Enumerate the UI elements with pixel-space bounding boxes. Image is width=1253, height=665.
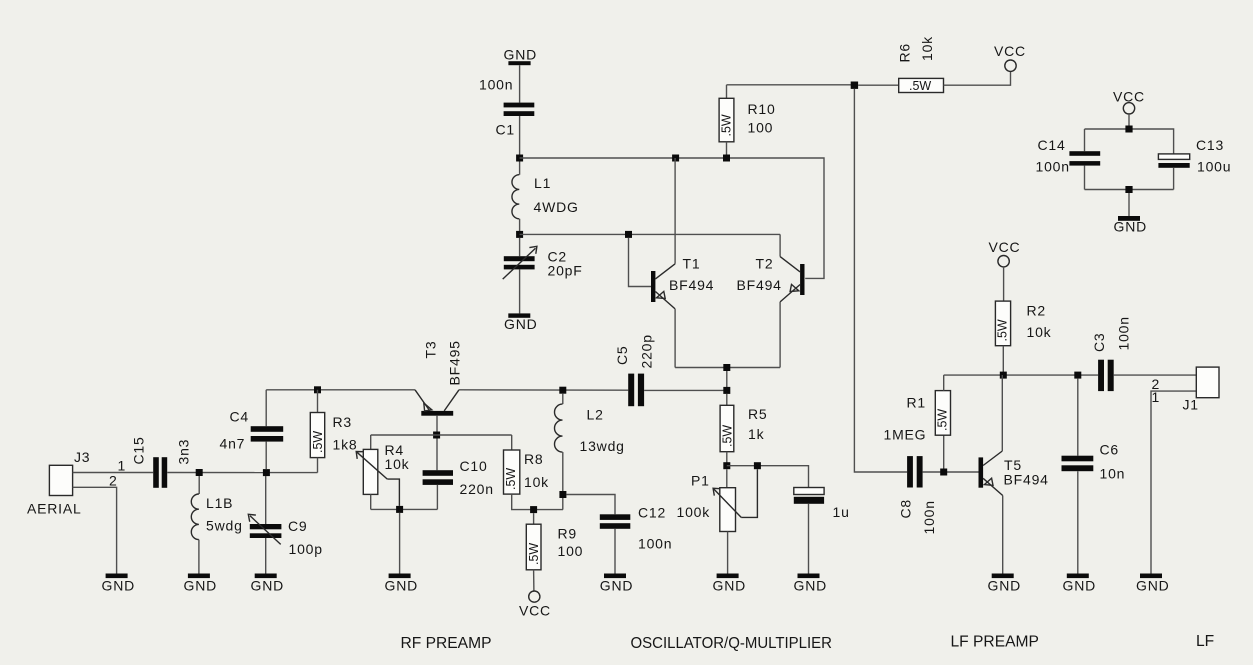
ground (T5) bbox=[988, 574, 1022, 594]
wire emitters U bbox=[675, 367, 780, 369]
wire C8 to T5 base bbox=[923, 471, 979, 473]
capacitor C3 bbox=[1091, 316, 1132, 391]
svg-text:100k: 100k bbox=[677, 504, 711, 520]
svg-text:GND: GND bbox=[713, 578, 747, 594]
ground (P1) bbox=[713, 574, 747, 594]
svg-text:1: 1 bbox=[118, 458, 127, 474]
node L1 bottom junction bbox=[516, 231, 523, 238]
svg-text:1k8: 1k8 bbox=[333, 437, 358, 453]
ground (C12) bbox=[600, 574, 634, 594]
ground (J1) bbox=[1136, 574, 1170, 594]
svg-text:P1: P1 bbox=[691, 473, 710, 489]
svg-text:4WDG: 4WDG bbox=[534, 199, 579, 215]
node R5 top junction bbox=[723, 387, 730, 394]
svg-text:.5W: .5W bbox=[504, 468, 518, 490]
svg-text:C14: C14 bbox=[1038, 137, 1066, 153]
wire rail y=158 bbox=[520, 158, 824, 278]
svg-text:VCC: VCC bbox=[519, 603, 551, 619]
svg-text:GND: GND bbox=[504, 47, 538, 63]
capacitor C2 (variable) bbox=[503, 238, 583, 314]
node L2 bottom junction bbox=[559, 491, 566, 498]
svg-text:J1: J1 bbox=[1183, 397, 1199, 413]
capacitor C5 bbox=[614, 334, 655, 406]
svg-text:T2: T2 bbox=[756, 256, 774, 272]
wire R10 top to R6 node bbox=[727, 84, 855, 86]
svg-text:L2: L2 bbox=[587, 407, 604, 423]
svg-text:3n3: 3n3 bbox=[176, 439, 192, 465]
capacitor C6 bbox=[1062, 379, 1126, 574]
svg-text:.5W: .5W bbox=[936, 409, 950, 431]
wire R5 bottom to 1u cap bbox=[727, 466, 809, 488]
svg-text:10k: 10k bbox=[524, 474, 549, 490]
svg-text:GND: GND bbox=[794, 578, 828, 594]
resistor R2 bbox=[995, 267, 1051, 375]
ground (J3 pin2) bbox=[102, 574, 136, 594]
svg-text:.5W: .5W bbox=[720, 114, 734, 136]
wire C5 right to R5 top node bbox=[644, 389, 727, 391]
capacitor C1 bbox=[479, 65, 534, 158]
svg-text:.5W: .5W bbox=[311, 431, 325, 453]
wire junction to ground bbox=[399, 513, 401, 574]
wire input node to C4/R3 bottom bbox=[266, 472, 317, 474]
inductor L1B bbox=[191, 476, 242, 574]
svg-text:R5: R5 bbox=[748, 406, 768, 422]
ground (L1B) bbox=[184, 574, 218, 594]
svg-text:VCC: VCC bbox=[994, 43, 1026, 59]
wire C15 to input node bbox=[167, 472, 266, 474]
svg-text:.5W: .5W bbox=[721, 425, 735, 447]
node R6 junction bbox=[851, 82, 858, 89]
svg-text:100n: 100n bbox=[1116, 316, 1132, 350]
svg-text:C12: C12 bbox=[638, 505, 666, 521]
capacitor C12 bbox=[600, 505, 673, 574]
svg-text:R10: R10 bbox=[748, 101, 776, 117]
svg-text:13wdg: 13wdg bbox=[580, 438, 625, 454]
svg-text:GND: GND bbox=[385, 578, 419, 594]
wire VCC rail vertical to LF preamp bbox=[854, 89, 907, 472]
supply VCC (C14/C13) bbox=[1113, 89, 1145, 130]
svg-text:C15: C15 bbox=[131, 436, 147, 464]
svg-text:.5W: .5W bbox=[996, 319, 1010, 341]
svg-text:C9: C9 bbox=[288, 518, 308, 534]
inductor L2 bbox=[555, 394, 625, 491]
svg-text:LF: LF bbox=[1196, 633, 1214, 650]
svg-text:GND: GND bbox=[988, 578, 1022, 594]
capacitor C9 (variable) bbox=[248, 476, 323, 574]
wire L2 bottom to C12 bbox=[566, 495, 615, 515]
resistor R9 bbox=[526, 513, 583, 591]
svg-text:220n: 220n bbox=[460, 481, 494, 497]
svg-text:BF494: BF494 bbox=[737, 277, 782, 293]
svg-text:1k: 1k bbox=[748, 426, 765, 442]
svg-text:C1: C1 bbox=[496, 122, 516, 138]
node VCC rail junction bbox=[1125, 126, 1132, 133]
inductor L1 bbox=[512, 162, 579, 235]
svg-text:GND: GND bbox=[251, 578, 285, 594]
svg-text:C4: C4 bbox=[230, 409, 250, 425]
node R2 bottom junction bbox=[1000, 372, 1007, 379]
svg-text:100u: 100u bbox=[1197, 159, 1231, 175]
svg-text:2: 2 bbox=[109, 473, 118, 489]
supply VCC (R2) bbox=[989, 239, 1021, 267]
svg-text:GND: GND bbox=[1136, 578, 1170, 594]
svg-text:R6: R6 bbox=[897, 43, 913, 63]
node C4 bottom junction bbox=[263, 469, 270, 476]
capacitor C10 bbox=[423, 439, 494, 510]
svg-text:L1: L1 bbox=[534, 175, 551, 191]
wire top rail C4 to T3 emitter bbox=[266, 389, 415, 391]
svg-text:10n: 10n bbox=[1100, 466, 1126, 482]
svg-text:5wdg: 5wdg bbox=[206, 518, 243, 534]
resistor R5 bbox=[720, 394, 767, 466]
svg-text:R8: R8 bbox=[524, 451, 544, 467]
node R1 bottom junction bbox=[940, 469, 947, 476]
svg-text:100p: 100p bbox=[289, 541, 323, 557]
svg-text:100n: 100n bbox=[479, 77, 513, 93]
node R10 bottom junction bbox=[723, 155, 730, 162]
svg-text:1u: 1u bbox=[833, 504, 850, 520]
wire C3 to J1 pin2 bbox=[1114, 374, 1197, 376]
svg-text:RF PREAMP: RF PREAMP bbox=[401, 635, 492, 652]
node input junction bbox=[196, 469, 203, 476]
svg-text:20pF: 20pF bbox=[548, 263, 583, 279]
node L2 top junction bbox=[559, 387, 566, 394]
svg-text:GND: GND bbox=[1114, 219, 1148, 235]
svg-text:GND: GND bbox=[504, 316, 538, 332]
svg-text:VCC: VCC bbox=[1113, 89, 1145, 105]
potentiometer R4 bbox=[356, 435, 409, 509]
resistor R10 bbox=[719, 85, 775, 158]
svg-text:10k: 10k bbox=[919, 36, 935, 61]
wire R4 bottom rail bbox=[371, 508, 438, 510]
capacitor C14 bbox=[1036, 129, 1101, 190]
wire top rail C14/C13 bbox=[1085, 129, 1174, 154]
svg-text:C6: C6 bbox=[1100, 442, 1120, 458]
supply VCC (R6) bbox=[994, 43, 1026, 71]
capacitor C15 bbox=[131, 436, 192, 487]
transistor T3 BF495 bbox=[415, 340, 463, 431]
wire L2 bottom to R8/R9 node bbox=[562, 498, 564, 510]
svg-text:10k: 10k bbox=[1027, 324, 1052, 340]
resistor R3 bbox=[310, 390, 357, 473]
capacitor C4 bbox=[220, 390, 284, 469]
svg-text:10k: 10k bbox=[385, 456, 410, 472]
capacitor C8 bbox=[898, 456, 938, 534]
ground (C9) bbox=[251, 574, 285, 594]
node R5 bottom junction bbox=[723, 462, 730, 469]
connector J3 bbox=[27, 449, 90, 517]
svg-text:.5W: .5W bbox=[909, 79, 931, 93]
wire rail y=234.4 to T2 collector bbox=[520, 233, 781, 235]
resistor R1 bbox=[884, 375, 951, 468]
svg-text:C8: C8 bbox=[898, 499, 914, 519]
svg-text:4n7: 4n7 bbox=[220, 436, 246, 452]
svg-text:VCC: VCC bbox=[989, 239, 1021, 255]
node GND rail junction bbox=[1125, 186, 1132, 193]
capacitor C13 (polarized) bbox=[1158, 137, 1231, 190]
svg-text:C5: C5 bbox=[614, 346, 630, 366]
wire base rail y=435 bbox=[371, 434, 512, 436]
wire to ground bbox=[1128, 193, 1130, 216]
wire bottom rail C14/C13 bbox=[1085, 189, 1174, 191]
svg-text:C10: C10 bbox=[460, 458, 488, 474]
connector J1 bbox=[1152, 367, 1220, 412]
svg-text:R2: R2 bbox=[1027, 303, 1047, 319]
transistor T2 BF494 (mirrored) bbox=[737, 234, 805, 367]
svg-text:BF494: BF494 bbox=[1004, 472, 1049, 488]
svg-text:1MEG: 1MEG bbox=[884, 427, 927, 443]
svg-text:C13: C13 bbox=[1196, 137, 1224, 153]
wire J1 pin1 to ground bbox=[1151, 391, 1196, 573]
svg-text:R3: R3 bbox=[333, 414, 353, 430]
svg-text:100n: 100n bbox=[921, 500, 937, 534]
resistor R8 bbox=[504, 435, 564, 510]
svg-text:GND: GND bbox=[1063, 578, 1097, 594]
wire J3 pin1 to C15 bbox=[73, 472, 154, 474]
svg-text:T1: T1 bbox=[683, 256, 701, 272]
node R9 top junction bbox=[530, 506, 537, 513]
wire J3 pin2 down to ground bbox=[73, 487, 117, 573]
wire emitter node to R5 top bbox=[726, 371, 728, 390]
capacitor 1u (polarized) bbox=[794, 488, 850, 574]
svg-text:100n: 100n bbox=[638, 536, 672, 552]
ground (R4) bbox=[385, 574, 419, 594]
wire base rail y=375 bbox=[944, 374, 1098, 376]
node C1 bottom junction bbox=[516, 155, 523, 162]
ground (C6) bbox=[1063, 574, 1097, 594]
supply VCC (R9) bbox=[519, 591, 551, 619]
svg-text:R9: R9 bbox=[558, 526, 578, 542]
node T1 collector junction bbox=[672, 155, 679, 162]
node T1 base junction bbox=[625, 231, 632, 238]
svg-text:100n: 100n bbox=[1036, 159, 1070, 175]
svg-text:BF494: BF494 bbox=[669, 277, 714, 293]
svg-text:LF PREAMP: LF PREAMP bbox=[951, 634, 1039, 651]
svg-text:GND: GND bbox=[184, 578, 218, 594]
ground (C14/C13) bbox=[1114, 216, 1148, 235]
svg-text:C3: C3 bbox=[1091, 333, 1107, 353]
svg-text:100: 100 bbox=[558, 543, 584, 559]
ground (1u) bbox=[794, 574, 828, 594]
ground (C1 top, inverted) bbox=[504, 47, 538, 66]
svg-text:R1: R1 bbox=[907, 395, 927, 411]
resistor R6 bbox=[858, 36, 1010, 93]
svg-text:AERIAL: AERIAL bbox=[27, 501, 82, 517]
wire T3 collector to C5 bbox=[459, 389, 628, 391]
potentiometer P1 bbox=[677, 469, 758, 573]
svg-text:J3: J3 bbox=[74, 449, 90, 465]
svg-text:OSCILLATOR/Q-MULTIPLIER: OSCILLATOR/Q-MULTIPLIER bbox=[631, 635, 833, 652]
transistor T5 BF494 bbox=[979, 375, 1049, 573]
node C6 junction bbox=[1074, 372, 1081, 379]
svg-text:.5W: .5W bbox=[527, 543, 541, 565]
node T3 base junction bbox=[433, 432, 440, 439]
node R4 wiper junction bbox=[396, 506, 403, 513]
node wiper junction bbox=[754, 462, 761, 469]
svg-text:1: 1 bbox=[1152, 389, 1161, 405]
svg-text:100: 100 bbox=[748, 120, 774, 136]
node R3 top junction bbox=[314, 386, 321, 393]
svg-text:L1B: L1B bbox=[206, 495, 233, 511]
svg-text:T3: T3 bbox=[423, 341, 439, 359]
node emitter junction bbox=[723, 364, 730, 371]
svg-text:220p: 220p bbox=[639, 334, 655, 368]
svg-text:GND: GND bbox=[102, 578, 136, 594]
transistor T1 BF494 bbox=[629, 158, 715, 368]
svg-text:BF495: BF495 bbox=[447, 340, 463, 385]
ground (C2) bbox=[504, 313, 538, 332]
svg-text:GND: GND bbox=[600, 578, 634, 594]
